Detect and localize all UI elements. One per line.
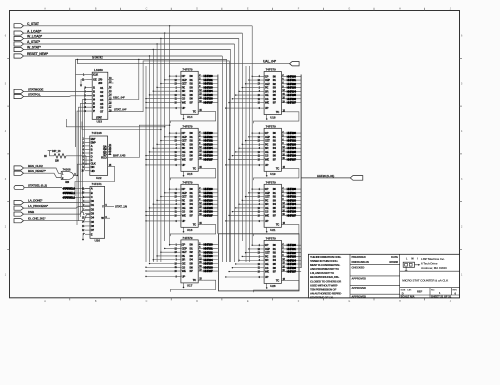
svg-text:STATPOL: STATPOL <box>28 93 41 97</box>
svg-text:74F198: 74F198 <box>92 131 103 135</box>
svg-text:A_LOAD*: A_LOAD* <box>27 29 42 33</box>
svg-text:LISP Machine Inc.: LISP Machine Inc. <box>421 257 445 261</box>
svg-text:DMFRANKLIN: DMFRANKLIN <box>352 260 369 264</box>
U23 pin I7 <box>77 111 92 225</box>
U22 pin A <box>85 145 90 147</box>
IC U17 74F579 <box>170 236 218 292</box>
U22 pin ENP <box>85 141 90 143</box>
U26 pin C <box>85 196 90 198</box>
U26 ground stub <box>83 233 85 239</box>
IC U28 74F579 <box>254 237 302 293</box>
svg-text:U19: U19 <box>270 172 276 176</box>
net STAT_04* wire <box>112 61 230 262</box>
prepared/checked/approved rows <box>350 264 400 266</box>
svg-text:H: H <box>399 8 401 11</box>
svg-text:STATIC: STATIC <box>92 56 104 60</box>
wire return row y126.8 <box>66 119 164 127</box>
svg-text:SCALE N/A: SCALE N/A <box>401 295 415 299</box>
output flag HHF20 (0..31) <box>301 177 350 179</box>
net tag STATSEL2 <box>62 196 90 198</box>
net tag STATSEL1 <box>62 192 90 194</box>
svg-text:STATSEL (0..2): STATSEL (0..2) <box>28 184 47 188</box>
svg-text:CHECKED: CHECKED <box>352 265 365 269</box>
svg-text:OE: OE <box>93 78 97 82</box>
svg-text:6 Tech Drive: 6 Tech Drive <box>421 262 438 266</box>
U23 pin O6 <box>108 107 112 109</box>
wire drop A_LOAD* left bundle <box>164 32 165 33</box>
svg-text:D: D <box>196 8 198 11</box>
svg-text:74F151: 74F151 <box>92 182 103 186</box>
U22 pin D <box>85 156 90 158</box>
extra left bundle vertical <box>145 66 147 262</box>
svg-text:BHS_CLK2: BHS_CLK2 <box>28 164 43 168</box>
svg-text:D: D <box>196 300 198 303</box>
U23 pin O1 <box>108 87 112 89</box>
U22 pin ENT <box>85 138 90 140</box>
svg-text:LS969: LS969 <box>94 68 103 72</box>
svg-text:A_STAT*: A_STAT* <box>27 40 41 44</box>
U23 pin O3 <box>108 95 112 97</box>
wire drop RESET_NEW* right bundle <box>221 56 223 262</box>
U23 pin I4 <box>83 99 93 213</box>
IC U22 74F198 <box>90 136 108 175</box>
svg-text:UAL_04*: UAL_04* <box>263 60 277 64</box>
zone ticks left/right edges <box>7 57 9 59</box>
U23 pin I3 <box>87 95 93 97</box>
LMI logo <box>400 270 460 272</box>
svg-text:U21: U21 <box>270 228 276 232</box>
svg-text:C_STAT: C_STAT <box>27 22 40 26</box>
svg-text:BHF_U43: BHF_U43 <box>113 154 126 158</box>
U23 pin TC1 <box>108 79 114 81</box>
svg-text:SENTATIVE OF LXI.: SENTATIVE OF LXI. <box>310 296 334 300</box>
U23 pin I2 <box>87 91 93 93</box>
input flag RESET_NEW* <box>14 54 24 58</box>
U26 pin D7 <box>85 229 90 231</box>
IC U21 74F579 <box>254 181 302 237</box>
U22 bottom loop wire <box>75 166 115 196</box>
U22 pin RCO / net BHF_U43 wire <box>108 125 170 157</box>
svg-text:U28: U28 <box>270 284 276 288</box>
svg-text:BHS_RESET*: BHS_RESET* <box>28 169 47 173</box>
svg-text:U15: U15 <box>187 172 193 176</box>
input flag STATPOL <box>14 94 24 98</box>
U26 pin D1 <box>85 204 90 206</box>
U26 pin D5 <box>85 221 90 223</box>
svg-text:REV: REV <box>453 290 458 292</box>
svg-text:W_LOAD*: W_LOAD* <box>27 35 43 39</box>
wire drop A_STAT* left bundle <box>156 43 157 44</box>
svg-text:STAT_1N: STAT_1N <box>115 204 127 208</box>
svg-text:W_STAT*: W_STAT* <box>27 46 42 50</box>
wire drop W_STAT* right bundle <box>230 50 232 263</box>
svg-text:U22: U22 <box>96 176 102 180</box>
drawing title <box>400 287 460 289</box>
svg-text:LA_PROCESS*: LA_PROCESS* <box>28 204 49 208</box>
U22 pin C <box>85 152 90 154</box>
U22 pin DN <box>85 166 90 168</box>
svg-text:74S08: 74S08 <box>63 168 72 172</box>
wire drop W_LOAD* left bundle <box>160 38 161 39</box>
svg-text:IO_CHE_301*: IO_CHE_301* <box>28 217 46 221</box>
U22 pin CLK <box>85 163 90 165</box>
U22 pin QC <box>108 151 112 153</box>
svg-text:U16: U16 <box>187 228 193 232</box>
input flag A_LOAD* <box>14 31 24 35</box>
U26 pin D2 <box>85 208 90 210</box>
svg-text:L M I: L M I <box>406 256 420 260</box>
input flag W_STAT* <box>14 47 24 51</box>
U23 pin O4 <box>108 99 112 101</box>
U23 pin O2 <box>108 91 112 93</box>
net STATIC wire <box>76 60 227 263</box>
svg-text:NO.: NO. <box>431 290 435 292</box>
bus flag STATSEL (0..2) <box>14 186 24 190</box>
svg-text:STAT_04*: STAT_04* <box>114 108 127 112</box>
svg-text:SHEET 21 OF 31: SHEET 21 OF 31 <box>431 295 452 299</box>
U23 OE ground arrow <box>81 80 87 85</box>
wire drop W_STAT* left bundle <box>153 49 154 50</box>
svg-text:DNB: DNB <box>28 210 35 214</box>
svg-text:LA_DONE*: LA_DONE* <box>28 199 43 203</box>
U26 pin B <box>85 192 90 194</box>
U26 pin W <box>105 217 110 219</box>
wire drop W_LOAD* right bundle <box>238 39 240 263</box>
U22 pin QA <box>108 145 112 147</box>
U23 pin I5 <box>81 103 93 217</box>
resistor DIP_16 220 <box>50 151 54 156</box>
IC U23 LS969 <box>92 72 108 119</box>
svg-text:C: C <box>146 8 148 11</box>
IC U16 74F579 <box>170 181 218 237</box>
wire drop A_LOAD* right bundle <box>241 33 243 241</box>
U26 pin D3 <box>85 213 90 215</box>
input flag DNB <box>14 212 24 216</box>
input flag C_STAT <box>14 24 24 28</box>
IC U14 74F579 <box>170 68 218 124</box>
U23 pin O5 <box>108 103 112 105</box>
svg-text:STATSEL1: STATSEL1 <box>63 191 76 195</box>
svg-text:U26: U26 <box>95 239 101 243</box>
IC U15 74F579 <box>170 125 218 181</box>
input flag BHS_RESET* <box>14 171 24 175</box>
svg-text:UBC_04*: UBC_04* <box>113 95 126 99</box>
output collection bus right of column 2 labels <box>217 75 219 234</box>
svg-text:MICRO STAT COUNTER & uA CLK: MICRO STAT COUNTER & uA CLK <box>402 279 449 283</box>
svg-text:SIZE: SIZE <box>401 290 406 292</box>
U22 pin B <box>85 148 90 150</box>
svg-text:U17: U17 <box>187 284 193 288</box>
wire drop RESET_NEW* left bundle <box>149 55 150 56</box>
svg-text:8/23/86: 8/23/86 <box>389 260 398 264</box>
input flag A_STAT* <box>14 42 24 46</box>
U23 pin I6 <box>79 107 93 221</box>
svg-text:STATSEL2: STATSEL2 <box>63 195 76 199</box>
wire UAL_04* horizontal <box>78 60 290 64</box>
U26 pin E <box>85 233 90 235</box>
svg-text:G: G <box>348 8 350 11</box>
wire drop A_STAT* right bundle <box>234 44 236 262</box>
svg-text:APPROVED: APPROVED <box>352 276 367 280</box>
gate output wire up to U22 CLK <box>74 164 90 175</box>
title block outline <box>308 254 459 297</box>
svg-text:STATMODE: STATMODE <box>28 87 43 91</box>
U22 pin QD <box>108 154 112 156</box>
IC U19 74F579 <box>254 125 302 181</box>
U22 pin U/D <box>85 170 90 172</box>
DIP pull-up vertical to clock wire <box>85 156 87 164</box>
U22 pin E <box>85 159 90 161</box>
U23 pin CLK <box>87 74 93 76</box>
sheet border frame <box>10 11 460 298</box>
IC U18 74F579 <box>254 68 302 124</box>
svg-text:APPROVED: APPROVED <box>352 294 367 298</box>
wire drop C_STAT left bundle <box>169 25 170 26</box>
input flag STATMODE <box>14 89 24 93</box>
input flag BHS_CLK2 <box>14 166 24 170</box>
svg-text:U23: U23 <box>97 120 103 124</box>
input flag IO_CHE_301* <box>14 219 24 223</box>
U23 pin I1 <box>85 88 93 170</box>
svg-text:U14: U14 <box>187 115 193 119</box>
svg-text:Andover, MA 01810: Andover, MA 01810 <box>421 266 447 270</box>
svg-text:U/D: U/D <box>91 169 95 173</box>
svg-text:G: G <box>348 300 350 303</box>
U26 pin A <box>85 188 90 190</box>
svg-text:REF: REF <box>417 289 423 293</box>
net UBC_04* wire <box>112 60 139 100</box>
svg-text:DIP_16: DIP_16 <box>52 149 61 153</box>
U26 pin D6 <box>85 225 90 227</box>
U23 pin OE <box>87 79 93 81</box>
input flag W_LOAD* <box>14 36 24 40</box>
svg-text:C: C <box>146 300 148 303</box>
IC U26 74F151 <box>90 186 105 238</box>
U23 pin O7 <box>108 111 112 113</box>
svg-text:DATE: DATE <box>391 255 398 259</box>
svg-text:STATSEL0: STATSEL0 <box>63 187 76 191</box>
U23 wire CLK from STATIC <box>76 74 87 76</box>
U22 pin QB <box>108 148 112 150</box>
net tag STATSEL0 <box>62 188 90 190</box>
svg-text:HHF20 (0..31): HHF20 (0..31) <box>317 174 334 178</box>
svg-text:H: H <box>399 300 401 303</box>
wire return row y129.5 <box>82 122 161 130</box>
svg-text:1K: 1K <box>44 155 47 158</box>
U26 pin D0 <box>85 200 90 202</box>
U23 pin TC0 <box>108 82 114 84</box>
U26 pin D4 <box>85 217 90 219</box>
group box around U28 <box>218 234 299 291</box>
output flag UAL_04* <box>290 62 300 66</box>
wire drop C_STAT right bundle <box>251 26 253 246</box>
svg-text:RESET_NEW*: RESET_NEW* <box>27 52 49 56</box>
input flag LA_DONE* <box>14 201 24 205</box>
input flag LA_PROCESS* <box>14 206 24 210</box>
svg-text:CAT.: CAT. <box>407 289 412 292</box>
output collection bus right of column 3 labels <box>300 75 302 269</box>
svg-text:U18: U18 <box>270 115 276 119</box>
size/no/rev row <box>400 294 460 296</box>
svg-text:APPROVED: APPROVED <box>352 286 367 290</box>
U26 pin Y <box>105 205 114 207</box>
svg-text:PREPARED: PREPARED <box>352 255 366 259</box>
